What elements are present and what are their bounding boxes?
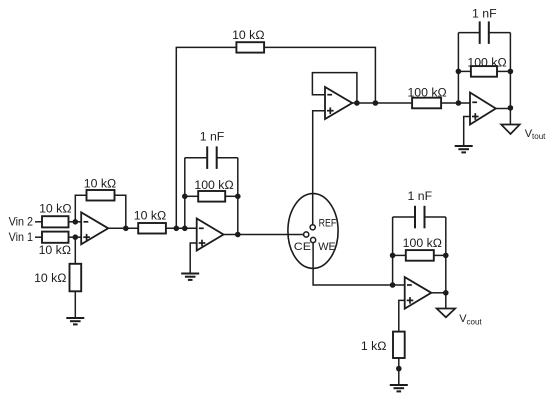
wire U5 output [431,292,446,294]
U4 plus sign [472,113,479,120]
wire feedback right vertical U1 [115,195,126,228]
junction dot R9 left [456,69,462,75]
wire R2 to non-inverting node [69,236,82,238]
U4 minus sign [472,101,477,103]
junction dot R7 to U3 output [373,100,379,106]
resistor R1 10 kOhm Vin2 input [42,216,69,227]
wire U4 feedback left vertical [457,33,459,103]
U2 minus sign [199,227,204,229]
svg-text:10 kΩ: 10 kΩ [134,209,166,223]
node Vin2 lead wire [35,221,42,223]
wire U2 feedback right vertical [237,158,239,235]
junction dot R11 to ground [396,366,402,372]
capacitor C2 1 nF left lead [458,32,479,34]
junction dot U4 inverting node [456,100,462,106]
op-amp U3 follower [325,87,352,119]
node Vin1 lead wire [35,236,42,238]
svg-text:100 kΩ: 100 kΩ [467,55,506,69]
op-amp U5 [405,277,432,309]
junction dot R10 left [390,253,396,259]
capacitor C3 right lead [425,216,446,218]
wire U5 plus input to R11 [399,300,405,331]
electrochemical cell ellipse [288,194,338,269]
wire U5 feedback right vertical [445,217,447,293]
resistor R9 100 kOhm feedback U4 leads [458,70,471,72]
svg-text:WE: WE [318,241,336,253]
resistor R9 100 kOhm feedback U4 [471,66,497,77]
capacitor C1 plates [207,146,217,169]
svg-text:100 kΩ: 100 kΩ [194,178,233,192]
ground GND2 [181,274,199,280]
wire R7 left vertical from top resistor [176,47,236,228]
svg-text:10 kΩ: 10 kΩ [39,243,71,257]
electrode CE circle [304,232,309,237]
junction dot U4 output [508,105,514,111]
electrode REF circle [310,225,315,230]
svg-text:1 nF: 1 nF [472,7,497,21]
junction dot U5 output [443,290,449,296]
wire REF vertical from U3 plus input [313,111,325,225]
ground GND3 [455,146,473,152]
U2 plus sign [199,240,206,247]
svg-text:Vtout: Vtout [525,128,546,141]
resistor R5 10 kOhm series [138,223,166,234]
junction dot R7 to U2 inverting [174,226,180,232]
junction dot U3 output [354,100,360,106]
wire U1 output [108,227,138,229]
resistor R4 10 kOhm feedback U1 [87,190,115,201]
junction dot R6 left [182,194,188,200]
electrode WE circle [311,237,316,242]
svg-text:100 kΩ: 100 kΩ [403,236,442,250]
wire U2 feedback left vertical [184,158,186,229]
wire R11 to ground [398,358,400,385]
wire feedback left vertical U1 [75,195,86,222]
resistor R8 100 kOhm input U4 [412,98,441,109]
U5 minus sign [407,284,412,286]
resistor R7 10 kOhm top feedback [236,42,264,52]
resistor R6 100 kOhm feedback U2 leads [185,195,198,197]
terminal Vcout triangle [437,309,456,318]
resistor R11 1 kOhm [393,332,405,358]
ground GND1 [66,318,84,324]
junction dot R6 right [235,194,241,200]
junction dot U1 output [123,226,129,232]
wire non-inverting node down to R3 [74,237,76,264]
wire R1 to inverting node [69,221,82,223]
junction dot U2 output [235,232,241,238]
resistor R6 100 kOhm feedback U2 [198,191,225,202]
capacitor C2 plates [480,21,489,44]
wire U3 feedback loop [312,73,357,103]
svg-text:10 kΩ: 10 kΩ [34,271,66,285]
junction dot U1 inverting node [73,219,79,225]
resistor R10 100 kOhm feedback U5 [406,250,434,261]
wire U5 output stub to terminal [445,293,447,309]
capacitor C1 right lead [217,157,238,159]
svg-text:Vin 1: Vin 1 [9,230,34,244]
wire R5 to U2 inverting input [166,227,197,229]
wire U4 plus input to ground [464,117,470,147]
resistor R3 10 kOhm to ground [70,264,82,292]
U5 plus sign [407,297,414,304]
junction dot R10 right [443,253,449,259]
wire R7 right vertical to U3 output [264,47,375,103]
wire U4 output stub to terminal [509,108,511,125]
svg-text:10 kΩ: 10 kΩ [232,28,264,42]
capacitor C3 1 nF left lead [393,216,415,218]
junction dot R9 right [508,69,514,75]
op-amp U1 [81,212,108,244]
op-amp U2 [197,219,224,251]
wire U4 output [496,108,511,110]
wire U2 plus input to ground [190,243,197,274]
op-amp U4 [470,93,496,125]
resistor R2 10 kOhm Vin1 input [42,232,69,243]
resistor R10 100 kOhm feedback U5 leads [393,254,406,256]
terminal Vtout triangle [501,125,520,135]
svg-text:10 kΩ: 10 kΩ [39,202,71,216]
capacitor C2 right lead [489,32,511,34]
wire R3 to ground [74,291,76,318]
svg-text:Vcout: Vcout [459,313,482,326]
U3 minus sign [327,94,332,96]
ground GND4 [390,385,408,391]
svg-text:CE: CE [294,241,312,253]
U1 minus sign [84,221,89,223]
wire U2 output to CE [224,234,304,236]
svg-text:1 nF: 1 nF [407,189,432,203]
junction dot U1 non-inverting node [73,234,79,240]
junction dot U5 inverting node [390,282,396,288]
svg-text:10 kΩ: 10 kΩ [84,176,116,190]
wire U4 feedback right vertical [509,33,511,108]
capacitor C3 plates [415,206,425,229]
capacitor C1 1 nF left lead [185,157,207,159]
junction dot feedback to U2 inverting [182,226,188,232]
wire R8 to U4 inverting input [441,102,470,104]
svg-text:Vin 2: Vin 2 [9,215,34,229]
wire U5 feedback left vertical [392,217,394,285]
U3 plus sign [327,107,334,114]
svg-text:100 kΩ: 100 kΩ [407,85,446,99]
svg-text:REF: REF [319,218,337,230]
svg-text:1 kΩ: 1 kΩ [361,339,387,353]
wire WE down and right to U5 inverting input [313,243,405,285]
svg-text:1 nF: 1 nF [200,130,225,144]
wire U3 output to R8 [352,102,412,104]
U1 plus sign [83,234,90,241]
